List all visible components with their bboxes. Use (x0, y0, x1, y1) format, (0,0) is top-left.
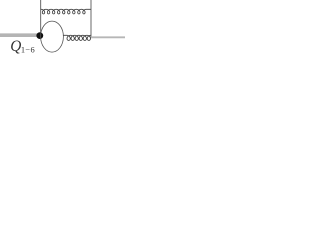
node: operator insertion vertex (black dot) (36, 32, 43, 39)
svg-text:6: 6 (31, 46, 35, 55)
gluon G2: middle coil from loop to right quark line (63, 35, 91, 40)
wire: right quark leg (vertical) (90, 0, 92, 38)
svg-text:Q: Q (10, 38, 21, 55)
wire: incoming quark double line (thick gray, left) (0, 33, 40, 37)
gluon G1: top coil from left leg to right leg (41, 9, 91, 14)
wire: left quark leg going up from vertex (40, 0, 42, 34)
wire: outgoing quark line (thin gray, right) (91, 36, 125, 38)
label Q_{1-6} (10, 38, 34, 55)
quark loop (ellipse) (41, 21, 64, 52)
